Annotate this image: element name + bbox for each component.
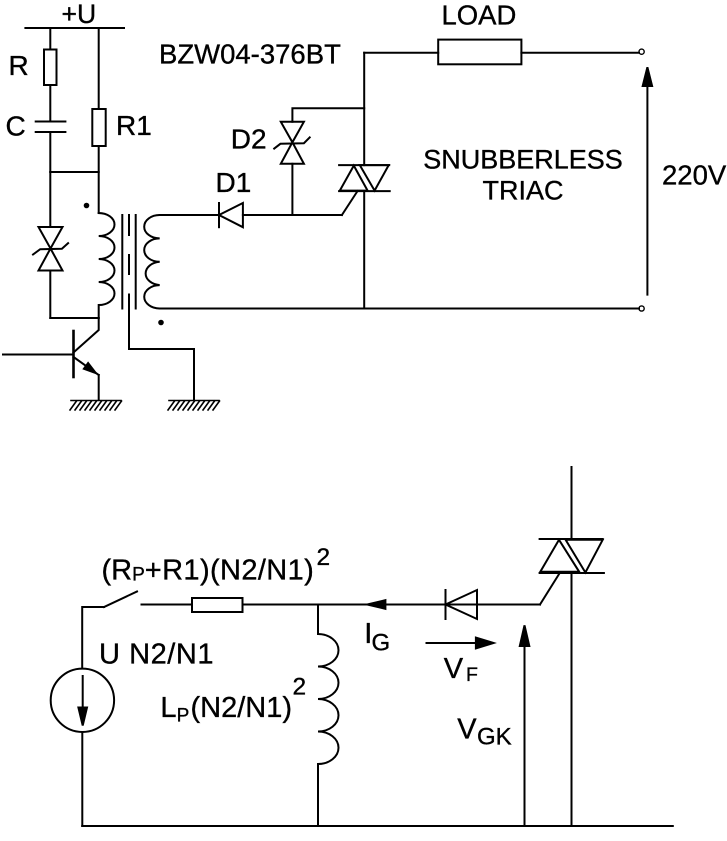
formula LP(N2/N1)^2 (160, 674, 306, 727)
svg-text:+U: +U (62, 0, 97, 29)
svg-text:TRIAC: TRIAC (483, 176, 564, 206)
transformer core left line (121, 215, 123, 309)
wire bottom right (160, 308, 639, 310)
svg-text:R1: R1 (116, 110, 152, 141)
wire main vertical top (363, 53, 365, 165)
svg-text:C: C (6, 111, 26, 142)
transformer primary winding (99, 213, 115, 318)
svg-text:LOAD: LOAD (442, 0, 517, 31)
terminal bottom (639, 306, 644, 311)
triac T2 (540, 539, 604, 573)
svg-text:P: P (177, 706, 190, 727)
wire rail to R1 (98, 28, 100, 109)
svg-text:G: G (372, 630, 391, 657)
transil D2 (274, 122, 310, 164)
shield dashed line (128, 215, 130, 274)
resistor R1 (92, 109, 105, 146)
switch (82, 592, 137, 669)
ground 2 (168, 401, 220, 411)
diode bottom (446, 590, 478, 619)
transistor Q1 (3, 318, 99, 400)
transformer secondary winding (144, 215, 160, 309)
wire R1 to primary (98, 146, 100, 213)
LOAD box (438, 40, 521, 65)
220V arrow (643, 67, 652, 294)
wire D1 to gate (243, 214, 342, 216)
diode D1 (219, 203, 243, 227)
resistor box (192, 598, 243, 612)
wire +U rail (25, 27, 124, 29)
wire main vertical bottom (363, 191, 365, 308)
svg-text:220V: 220V (662, 159, 727, 190)
wire D2 branch (291, 164, 293, 215)
capacitor C (36, 122, 66, 133)
arrow VGK (520, 625, 530, 826)
inductor LP (318, 605, 339, 827)
svg-text:L: L (160, 692, 176, 724)
wire R to C (49, 85, 51, 122)
svg-text:P: P (132, 564, 145, 585)
svg-text:(N2/N1): (N2/N1) (191, 692, 293, 724)
wire bottom horizontal (50, 317, 98, 319)
ground 1 (70, 401, 122, 411)
arrow VF (427, 638, 494, 649)
svg-text:D1: D1 (216, 167, 252, 198)
wire bottom rail (82, 825, 673, 827)
svg-text:V: V (457, 713, 477, 745)
svg-text:D2: D2 (231, 124, 267, 155)
svg-text:U N2/N1: U N2/N1 (99, 639, 214, 671)
svg-text:SNUBBERLESS: SNUBBERLESS (423, 145, 623, 175)
terminal top (639, 49, 644, 54)
diac (33, 227, 68, 271)
wire to LOAD (364, 52, 438, 54)
svg-text:GK: GK (477, 724, 512, 751)
wire junction to diac (49, 172, 51, 227)
wire top main (142, 604, 541, 606)
wire LOAD to terminal (521, 52, 639, 54)
transformer core right line (135, 215, 137, 309)
wire junction horizontal (50, 171, 98, 173)
svg-text:R: R (9, 50, 29, 81)
label IG (364, 618, 390, 657)
secondary phase dot (158, 320, 164, 326)
wire gate diagonal bottom (540, 574, 559, 605)
current arrow IG (367, 600, 385, 609)
svg-text:(R: (R (102, 555, 133, 587)
resistor R (44, 50, 57, 86)
wire diac to bottom node (49, 271, 51, 319)
source U N2/N1 (51, 669, 114, 732)
svg-text:V: V (444, 653, 464, 685)
svg-text:F: F (466, 664, 478, 686)
wire secondary to D1 (160, 214, 219, 216)
primary phase dot (84, 203, 90, 209)
wire D2 top (292, 108, 364, 122)
svg-text:BZW04-376BT: BZW04-376BT (159, 39, 341, 70)
svg-text:2: 2 (293, 674, 307, 701)
label VGK (457, 713, 511, 750)
wire source to bottom (81, 732, 83, 826)
wire triac cathode (571, 573, 573, 826)
wire triac anode top (571, 467, 573, 539)
svg-text:+R1)(N2/N1): +R1)(N2/N1) (145, 555, 314, 587)
formula (RP+R1)(N2/N1)^2 (102, 544, 331, 587)
wire gate diagonal (342, 191, 358, 215)
label VF (444, 653, 478, 686)
shield wire to ground (129, 295, 194, 401)
wire C to junction (49, 132, 51, 172)
wire rail to R (49, 28, 51, 50)
triac T1 (339, 165, 390, 191)
svg-text:2: 2 (317, 544, 331, 571)
